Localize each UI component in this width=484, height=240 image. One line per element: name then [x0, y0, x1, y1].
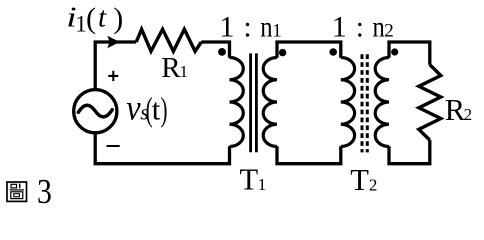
sine wave inside source: [78, 105, 112, 117]
wire: load loop top: [389, 42, 430, 65]
T1 secondary dot: [279, 49, 286, 56]
voltage source vs: [74, 90, 117, 133]
svg-text:n: n: [373, 10, 386, 43]
wire: resistor to T1 primary: [201, 42, 229, 58]
transformer T1 primary winding: [230, 58, 244, 147]
svg-text:t: t: [152, 92, 161, 127]
T1 core lines: [251, 53, 257, 152]
minus sign: [107, 145, 120, 147]
T2 secondary dot: [391, 48, 398, 55]
svg-text:v: v: [126, 88, 141, 128]
svg-text:1: 1: [75, 12, 87, 37]
svg-text:): ): [161, 91, 168, 128]
wire: middle loop bottom: [277, 146, 341, 164]
T2 dashed core lines: [362, 54, 367, 152]
resistor R2: [419, 65, 441, 140]
wire: load loop bottom: [389, 140, 430, 164]
label 圖 (drawn glyph): [7, 182, 27, 201]
svg-text:n: n: [260, 10, 273, 43]
plus sign: [108, 71, 118, 81]
current arrow i1: [107, 36, 120, 49]
svg-text:2: 2: [384, 21, 394, 42]
svg-text:3: 3: [37, 173, 52, 212]
svg-text:t: t: [98, 2, 107, 34]
transformer T2 secondary winding: [375, 58, 389, 147]
transformer T1 secondary winding: [263, 58, 277, 147]
transformer T2 primary winding: [341, 58, 355, 147]
wire: middle loop top: [277, 42, 341, 58]
resistor R1: [136, 29, 201, 51]
wire: primary loop top-left vertical and top horizontal to resistor: [95, 42, 136, 89]
wire: primary loop left-bottom and bottom horizontal: [95, 134, 229, 164]
T1 primary dot: [218, 48, 226, 56]
svg-text:1: 1: [272, 21, 282, 42]
T2 primary dot: [329, 48, 337, 56]
